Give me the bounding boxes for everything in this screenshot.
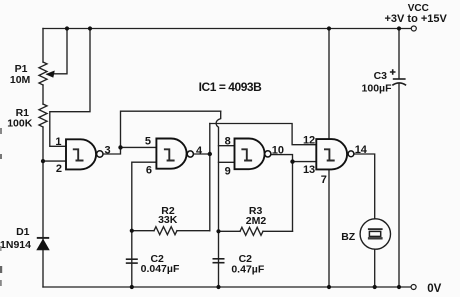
svg-text:3: 3 <box>105 144 111 156</box>
svg-text:8: 8 <box>225 136 231 148</box>
svg-text:14: 14 <box>355 144 368 156</box>
svg-text:0V: 0V <box>427 283 441 295</box>
svg-text:2: 2 <box>56 163 62 175</box>
svg-text:33K: 33K <box>158 214 178 226</box>
svg-text:6: 6 <box>146 164 152 176</box>
svg-text:+3V to +15V: +3V to +15V <box>385 13 448 25</box>
svg-text:1: 1 <box>55 136 61 148</box>
svg-text:10: 10 <box>272 144 284 156</box>
svg-text:0.047µF: 0.047µF <box>141 263 180 275</box>
svg-text:BZ: BZ <box>341 231 356 243</box>
svg-text:100K: 100K <box>7 118 33 130</box>
svg-text:5: 5 <box>145 136 151 148</box>
svg-text:10M: 10M <box>10 74 31 86</box>
svg-text:100µF: 100µF <box>362 82 393 94</box>
svg-text:12: 12 <box>303 135 315 147</box>
svg-text:IC1 = 4093B: IC1 = 4093B <box>199 80 263 94</box>
svg-text:4: 4 <box>196 145 203 157</box>
svg-text:0.47µF: 0.47µF <box>231 263 264 275</box>
svg-text:9: 9 <box>225 165 231 177</box>
svg-text:13: 13 <box>303 164 315 176</box>
svg-text:1N914: 1N914 <box>0 239 31 251</box>
svg-text:VCC: VCC <box>408 3 429 14</box>
svg-text:C3: C3 <box>374 70 388 82</box>
svg-text:7: 7 <box>321 174 327 186</box>
svg-text:2M2: 2M2 <box>246 215 267 227</box>
svg-text:D1: D1 <box>16 226 30 238</box>
